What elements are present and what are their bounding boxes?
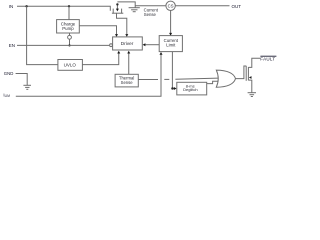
svg-text:CS: CS — [168, 4, 174, 9]
svg-text:Sense: Sense — [144, 12, 157, 17]
svg-text:IN: IN — [9, 4, 14, 9]
svg-text:ILIM: ILIM — [3, 93, 10, 98]
svg-text:Sense: Sense — [121, 80, 134, 85]
svg-text:Pump: Pump — [62, 26, 74, 31]
svg-text:GND: GND — [4, 71, 14, 76]
svg-text:FAULT: FAULT — [260, 56, 275, 61]
svg-text:Driver: Driver — [121, 41, 134, 46]
svg-text:EN: EN — [9, 43, 15, 48]
svg-text:UVLO: UVLO — [64, 63, 77, 68]
svg-text:OUT: OUT — [232, 4, 242, 9]
svg-text:Deglitch: Deglitch — [183, 87, 197, 92]
svg-text:Limit: Limit — [166, 43, 176, 48]
